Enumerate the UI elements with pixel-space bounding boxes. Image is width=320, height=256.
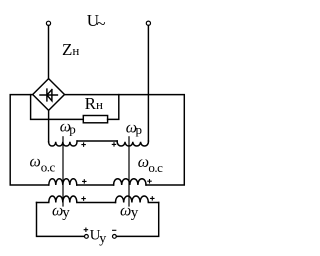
polarity mark + ωр right bbox=[112, 143, 115, 146]
core left bbox=[62, 137, 64, 206]
wire between working windings bbox=[77, 140, 117, 142]
working winding ωр right bbox=[117, 141, 148, 146]
feedback winding ωос left bbox=[49, 179, 77, 185]
svg-text:у: у bbox=[62, 205, 70, 221]
diode inside bridge bbox=[40, 89, 57, 101]
minus mark Uу bbox=[113, 229, 116, 231]
resistor Rн bbox=[83, 116, 107, 123]
terminal right bbox=[146, 21, 150, 25]
polarity mark + ωу left bbox=[82, 197, 85, 200]
svg-text:у: у bbox=[131, 205, 139, 221]
svg-text:ω: ω bbox=[120, 202, 131, 219]
wire ωу left end down to control source bbox=[37, 203, 85, 237]
polarity mark + ωос left bbox=[83, 180, 86, 183]
svg-text:ω: ω bbox=[30, 153, 41, 170]
control winding ωу right bbox=[116, 196, 159, 203]
wire Rн left to bridge-left branch bbox=[31, 95, 84, 120]
core right bbox=[128, 137, 130, 206]
plus mark Uу bbox=[84, 228, 87, 231]
svg-text:ω: ω bbox=[138, 154, 149, 171]
svg-text:~: ~ bbox=[96, 14, 105, 33]
feedback winding ωос right bbox=[114, 179, 146, 185]
terminal Uу plus bbox=[85, 235, 89, 239]
wire bridge right vertex to outer-right rail down to feedback row bbox=[65, 95, 185, 185]
rectifier bridge VD bbox=[33, 79, 65, 111]
svg-text:о.с: о.с bbox=[41, 159, 56, 174]
wire bridge left vertex to outer-left rail down to feedback row bbox=[10, 95, 49, 185]
polarity mark + ωр left bbox=[82, 143, 85, 146]
wire between feedback windings bbox=[77, 184, 114, 186]
polarity mark + ωу right bbox=[151, 197, 154, 200]
polarity mark + ωос right bbox=[148, 180, 151, 183]
wire bridge bottom vertex down bbox=[48, 110, 50, 141]
svg-text:р: р bbox=[136, 122, 143, 137]
svg-text:Rн: Rн bbox=[85, 94, 103, 113]
wire Uу minus to ωу right end bbox=[117, 203, 159, 237]
control winding ωу left bbox=[37, 196, 116, 203]
svg-text:у: у bbox=[99, 232, 106, 247]
svg-text:о.с: о.с bbox=[148, 160, 163, 175]
terminal Uу minus bbox=[113, 235, 117, 239]
wire left terminal to bridge top bbox=[48, 26, 50, 79]
working winding ωр left bbox=[49, 141, 77, 146]
wire right terminal down to right working winding bbox=[147, 26, 149, 142]
svg-text:р: р bbox=[69, 122, 76, 137]
wire Rн tap from top rail bbox=[108, 95, 119, 120]
terminal left bbox=[46, 21, 50, 25]
svg-text:Zн: Zн bbox=[62, 40, 79, 59]
